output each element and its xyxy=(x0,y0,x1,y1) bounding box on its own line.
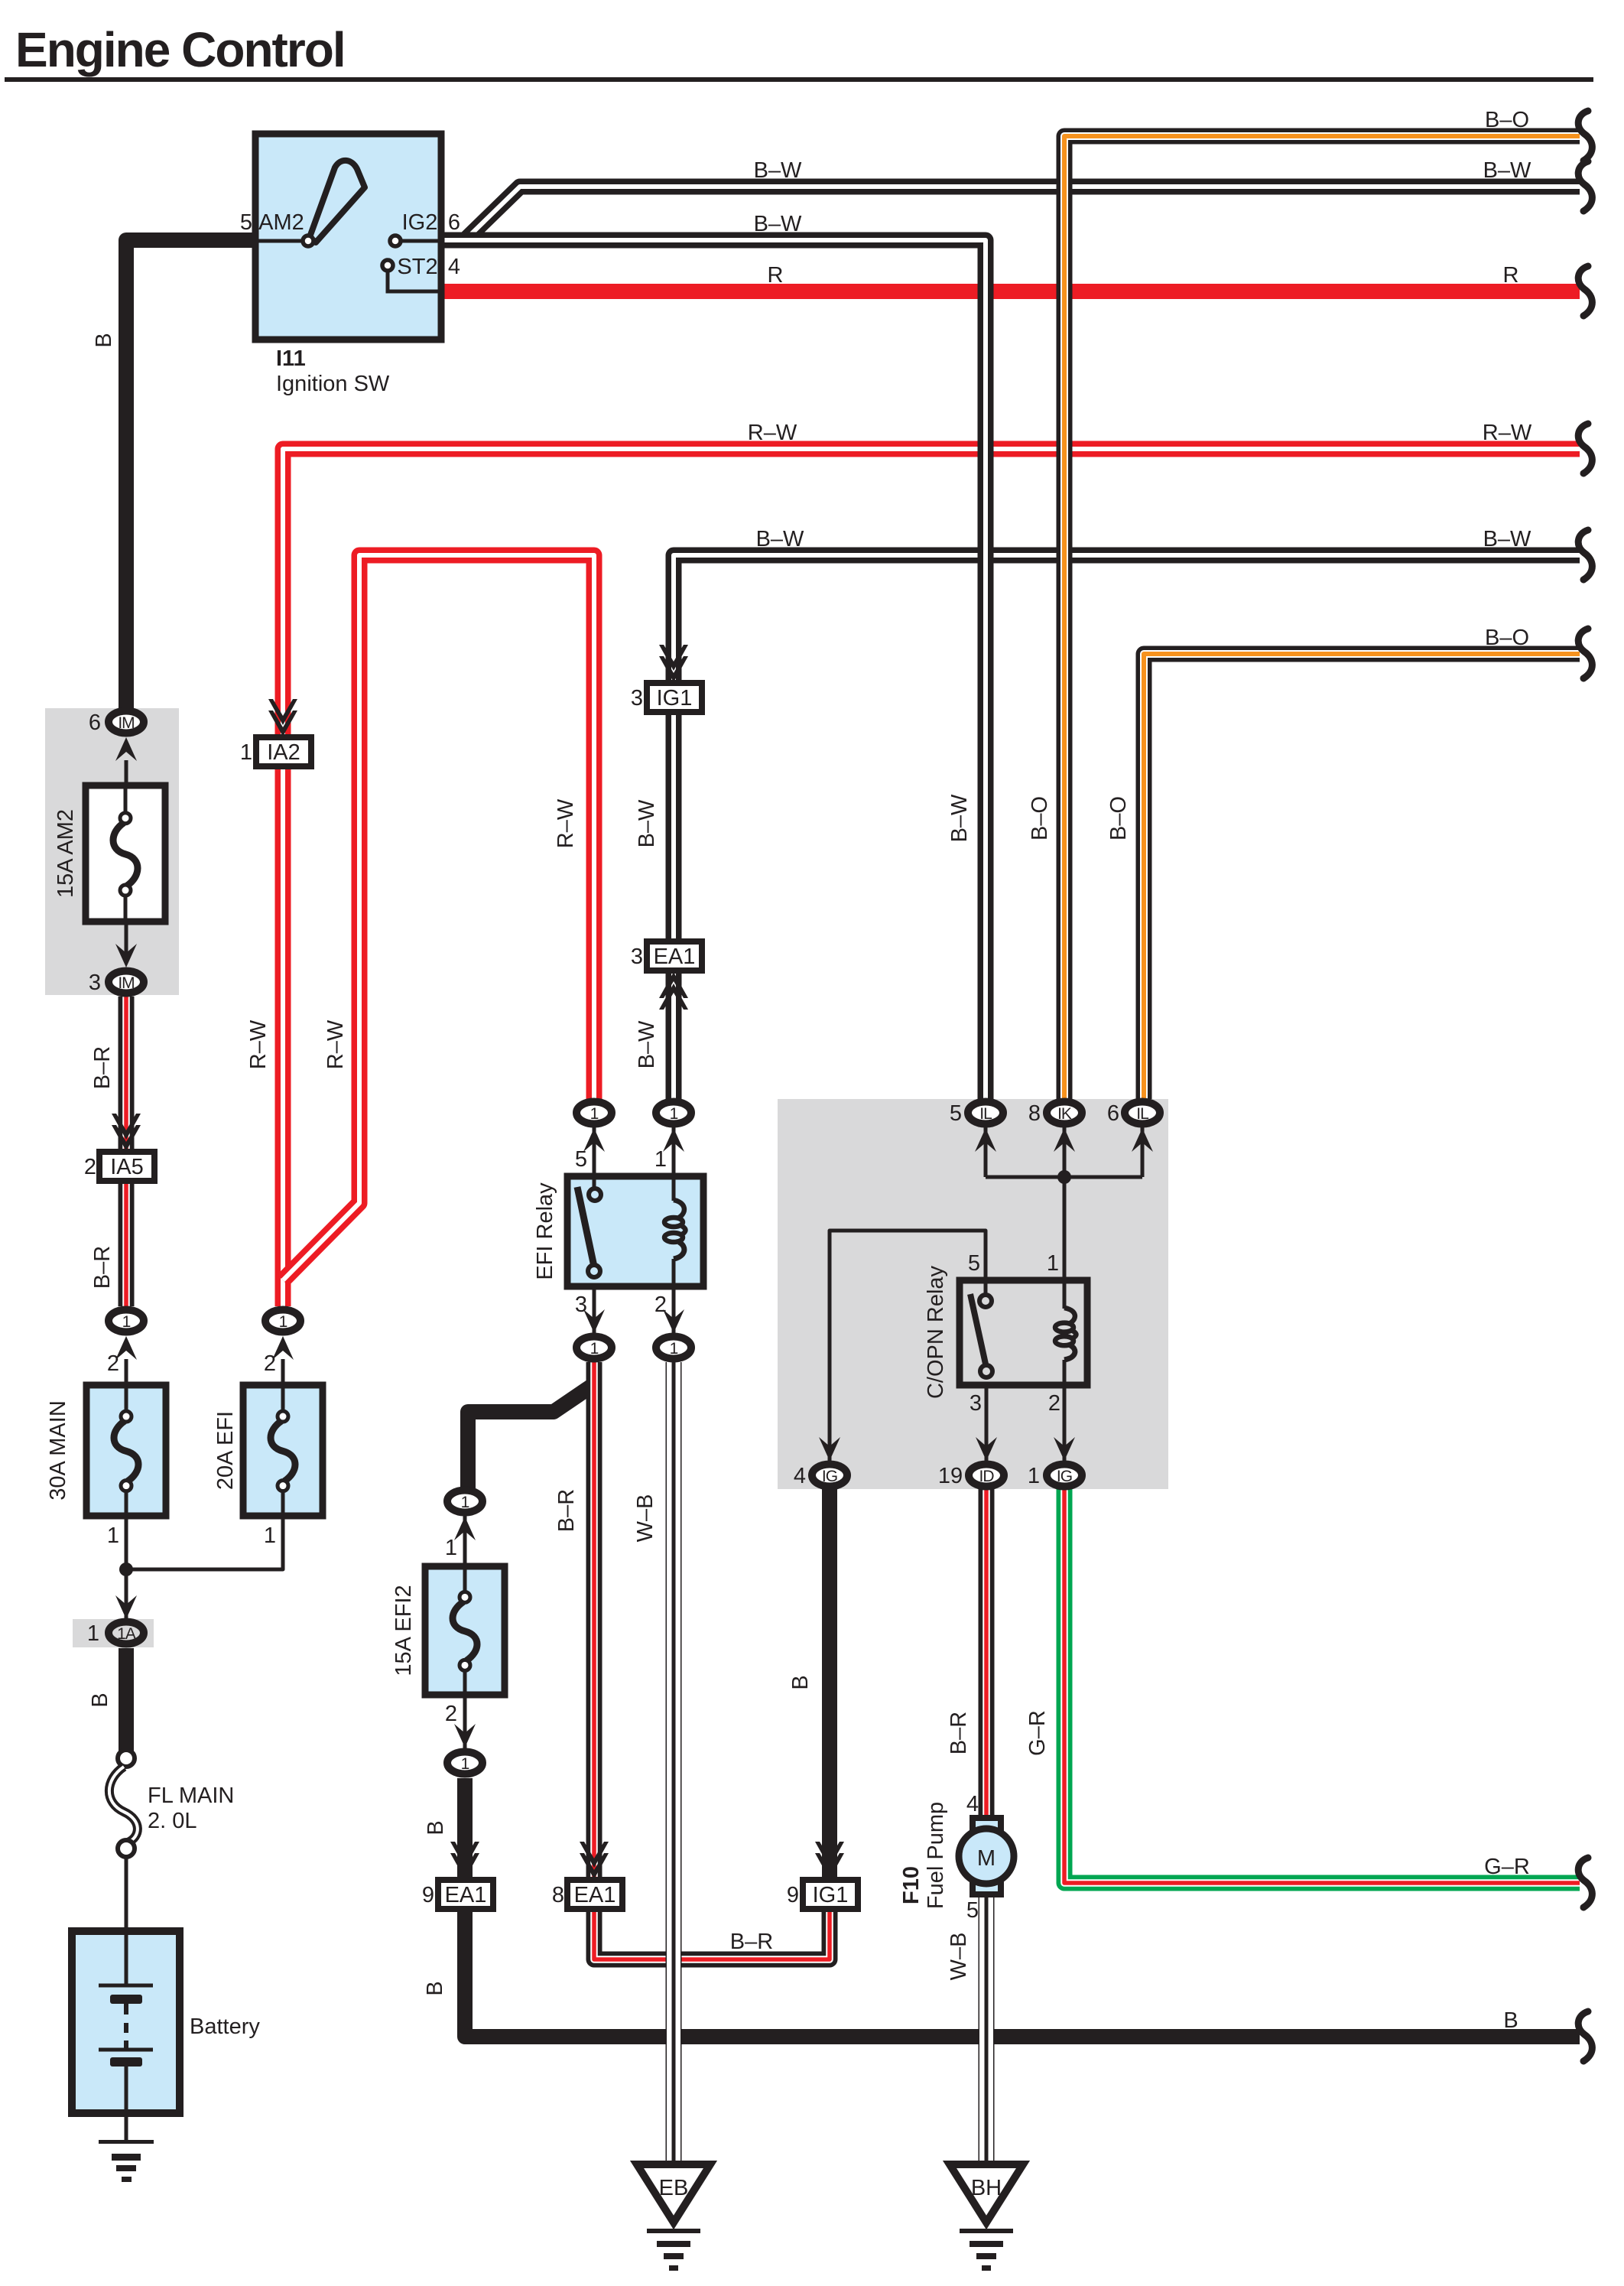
chevron into 3 IG1 xyxy=(659,645,688,682)
svg-text:2. 0L: 2. 0L xyxy=(148,1809,197,1833)
connector 9 EA1 xyxy=(422,1880,493,1909)
svg-text:1: 1 xyxy=(461,1494,469,1511)
svg-text:R–W: R–W xyxy=(246,1019,271,1069)
title underline xyxy=(5,77,1593,82)
wire EFI relay pin 2 to connector xyxy=(672,1283,676,1333)
arrow into 1 IG xyxy=(1054,1437,1075,1461)
continuation B bottom xyxy=(1578,2011,1592,2061)
svg-text:3: 3 xyxy=(89,971,101,995)
svg-text:IA2: IA2 xyxy=(267,740,300,765)
svg-text:B–O: B–O xyxy=(1485,626,1529,650)
arrow into connector (EFI relay pin 5) xyxy=(583,1128,605,1152)
connector 6 IM xyxy=(89,711,144,735)
svg-text:IL: IL xyxy=(979,1105,992,1123)
svg-text:1: 1 xyxy=(122,1313,131,1331)
arrow into connector below pin 2 xyxy=(663,1309,684,1333)
svg-text:1: 1 xyxy=(654,1147,667,1172)
battery ground xyxy=(99,2140,154,2182)
connector 2 IA5 xyxy=(84,1152,154,1181)
wire from 20A EFI pin 1 to junction xyxy=(126,1516,283,1569)
svg-text:5: 5 xyxy=(966,1898,979,1923)
svg-text:1: 1 xyxy=(670,1105,678,1123)
svg-text:1: 1 xyxy=(87,1621,99,1646)
wire B-W from right edge to 3 IG1 xyxy=(674,555,1580,684)
wire from connector to 15A EFI2 pin 1 xyxy=(463,1516,467,1568)
svg-text:R–W: R–W xyxy=(554,798,578,848)
svg-text:B–W: B–W xyxy=(1483,158,1531,183)
wire from 15A EFI2 pin 2 to connector xyxy=(463,1695,467,1749)
svg-text:2: 2 xyxy=(445,1702,457,1726)
svg-text:EA1: EA1 xyxy=(445,1883,487,1907)
wire R-W upper from right edge to IA2 and 20A EFI fuse xyxy=(283,449,1580,737)
wire from 6 IL down to junction bus xyxy=(1141,1127,1145,1177)
arrow into 6 IM xyxy=(115,737,137,761)
wire B-W from 3 EA1 to EFI relay connector xyxy=(666,971,682,1099)
svg-text:1: 1 xyxy=(1028,1464,1040,1488)
svg-text:B: B xyxy=(88,1693,112,1707)
ignition switch contact AM2 xyxy=(303,236,313,246)
continuation B-W lower xyxy=(1578,530,1592,580)
junction node on relay bus xyxy=(1057,1170,1071,1184)
wire 6 IM to 15A AM2 fuse xyxy=(125,760,128,789)
arrow into 4 IG xyxy=(819,1437,840,1461)
wire R-W from IA2 down to 20A EFI connector xyxy=(275,766,291,1306)
wire B (thick) from connector to 9 EA1 xyxy=(457,1778,473,1881)
svg-text:W–B: W–B xyxy=(947,1933,971,1981)
svg-text:15A AM2: 15A AM2 xyxy=(54,809,78,898)
fuel pump F10 motor xyxy=(959,1792,1014,1923)
svg-text:1: 1 xyxy=(461,1755,469,1773)
wire B-O from right edge down to 8 IK xyxy=(1064,136,1580,1099)
connector 5 IL xyxy=(950,1101,1003,1126)
svg-text:IL: IL xyxy=(1136,1105,1148,1123)
svg-text:B–W: B–W xyxy=(756,527,804,551)
wire B-W upper from IG2 pin 6 to right edge xyxy=(441,187,1580,240)
svg-text:IG2: IG2 xyxy=(402,210,438,235)
svg-text:1: 1 xyxy=(590,1105,599,1123)
svg-text:5: 5 xyxy=(575,1147,587,1172)
arrow into 19 ID xyxy=(976,1437,997,1461)
EFI relay switch xyxy=(577,1187,601,1277)
svg-text:3: 3 xyxy=(631,686,643,711)
battery xyxy=(72,1931,180,2113)
svg-text:9: 9 xyxy=(422,1883,434,1907)
svg-text:EA1: EA1 xyxy=(654,945,696,969)
svg-text:IG: IG xyxy=(822,1468,837,1485)
svg-text:1: 1 xyxy=(107,1523,119,1548)
connector 3 IG1 xyxy=(631,683,702,712)
svg-text:AM2: AM2 xyxy=(258,210,304,235)
ground EB xyxy=(637,2164,710,2223)
svg-text:C/OPN Relay: C/OPN Relay xyxy=(924,1265,948,1399)
wire from 30A MAIN pin 1 to junction xyxy=(125,1516,128,1621)
svg-text:IM: IM xyxy=(118,974,134,992)
connector 1 below 15A EFI2 xyxy=(447,1752,482,1774)
highlight panel behind 1A connector xyxy=(73,1619,154,1647)
arrow into 3 IM xyxy=(115,944,137,967)
ground symbol BH xyxy=(960,2229,1013,2271)
svg-text:I11: I11 xyxy=(276,346,306,371)
svg-text:4: 4 xyxy=(448,255,460,279)
connector 1 above EFI relay pin 1 xyxy=(656,1102,691,1124)
wire junction bus to C/OPN relay pin 1 xyxy=(986,1127,1142,1280)
svg-text:1: 1 xyxy=(279,1313,287,1331)
svg-text:R–W: R–W xyxy=(1483,421,1532,445)
svg-text:B–O: B–O xyxy=(1485,108,1529,132)
svg-text:IG1: IG1 xyxy=(657,686,693,711)
junction node xyxy=(119,1562,133,1576)
wire B-R from 19 ID to fuel pump pin 4 xyxy=(979,1489,995,1818)
C/OPN relay switch xyxy=(970,1294,992,1377)
svg-text:1: 1 xyxy=(1047,1251,1059,1276)
arrow into connector below pin 3 xyxy=(583,1309,605,1333)
wire B-W from IG2 pin 6 down to 5 IL xyxy=(441,240,986,1099)
wire B-R from 3 IM to 2 IA5 xyxy=(119,997,135,1153)
svg-text:IG1: IG1 xyxy=(813,1883,849,1907)
svg-text:9: 9 xyxy=(787,1883,799,1907)
ground BH xyxy=(950,2164,1023,2223)
svg-text:B–R: B–R xyxy=(90,1046,115,1089)
svg-text:4: 4 xyxy=(966,1792,979,1816)
svg-text:B–R: B–R xyxy=(730,1930,773,1954)
svg-text:EFI Relay: EFI Relay xyxy=(533,1182,557,1280)
svg-text:B–R: B–R xyxy=(947,1712,971,1754)
wire B (thick) from 9 EA1 to right edge xyxy=(465,1908,1580,2037)
svg-text:R: R xyxy=(768,263,784,288)
fuse 15A EFI2 xyxy=(391,1566,505,1695)
svg-text:IA5: IA5 xyxy=(110,1155,144,1179)
EFI relay coil xyxy=(664,1179,686,1283)
svg-text:B–W: B–W xyxy=(635,799,659,847)
EFI relay box xyxy=(567,1176,703,1286)
svg-text:B: B xyxy=(424,1820,448,1835)
wire B (thick) from AM2 pin 5 down to 6 IM xyxy=(126,240,255,708)
continuation B-O xyxy=(1578,111,1592,161)
wire B-R from 2 IA5 to 30A MAIN connector xyxy=(119,1180,135,1306)
arrow into 6 IL xyxy=(1132,1128,1153,1152)
wire from FL MAIN to battery xyxy=(125,1855,128,1935)
ignition switch I11 box xyxy=(255,134,441,340)
arrow into 8 IK xyxy=(1054,1128,1075,1152)
arrow into connector (EFI relay pin 1) xyxy=(663,1128,684,1152)
svg-text:B–O: B–O xyxy=(1106,796,1131,841)
svg-text:R–W: R–W xyxy=(323,1019,348,1069)
svg-text:ID: ID xyxy=(979,1468,995,1485)
svg-text:G–R: G–R xyxy=(1025,1710,1050,1756)
svg-text:6: 6 xyxy=(448,210,460,235)
svg-text:Ignition SW: Ignition SW xyxy=(276,372,390,396)
chevron into 9 IG1 xyxy=(815,1842,844,1879)
svg-text:Fuel Pump: Fuel Pump xyxy=(924,1802,948,1909)
connector 1 above 15A EFI2 xyxy=(447,1491,482,1513)
wire from C/OPN relay pin 3 to 19 ID xyxy=(985,1385,989,1461)
svg-text:6: 6 xyxy=(1107,1101,1119,1126)
svg-text:IM: IM xyxy=(118,714,134,732)
svg-text:M: M xyxy=(977,1846,996,1871)
wire from 5 IL down to junction bus xyxy=(984,1127,988,1177)
svg-text:EB: EB xyxy=(659,2176,689,2200)
wire 30A MAIN pin 2 xyxy=(125,1359,128,1388)
arrow into 5 IL xyxy=(975,1128,996,1152)
svg-text:B: B xyxy=(1503,2008,1518,2033)
wire EFI relay pin 3 to connector xyxy=(593,1283,596,1333)
svg-text:R: R xyxy=(1503,263,1519,288)
connector 1 above 20A EFI xyxy=(265,1310,300,1332)
connector 3 EA1 xyxy=(631,941,702,971)
svg-text:B–R: B–R xyxy=(554,1489,579,1532)
connector 3 IM xyxy=(89,971,144,995)
svg-text:1: 1 xyxy=(670,1340,678,1358)
arrow into connector below EFI2 xyxy=(454,1724,476,1748)
svg-text:B–W: B–W xyxy=(754,212,802,236)
svg-text:G–R: G–R xyxy=(1484,1855,1530,1879)
connector 1 above EFI relay pin 5 xyxy=(577,1102,612,1124)
arrow into connector 1 (20A EFI) xyxy=(272,1336,294,1360)
svg-text:B: B xyxy=(788,1675,813,1689)
arrow into 1A xyxy=(115,1595,137,1619)
connector 1 below EFI relay pin 3 xyxy=(577,1337,612,1359)
svg-text:B–W: B–W xyxy=(1483,527,1531,551)
wire from C/OPN relay pin 2 to 1 IG xyxy=(1063,1385,1067,1461)
connector 9 IG1 xyxy=(787,1880,858,1909)
svg-text:15A EFI2: 15A EFI2 xyxy=(391,1585,416,1676)
wire 20A EFI pin 2 xyxy=(281,1359,285,1388)
fuse 15A AM2 xyxy=(54,785,165,922)
fuse 30A MAIN xyxy=(46,1385,166,1516)
svg-text:5: 5 xyxy=(950,1101,962,1126)
ground symbol EB xyxy=(647,2229,700,2271)
svg-text:B: B xyxy=(423,1981,447,1995)
svg-text:5: 5 xyxy=(240,210,252,235)
svg-text:EA1: EA1 xyxy=(574,1883,616,1907)
svg-text:3: 3 xyxy=(631,945,643,969)
connector 1 below EFI relay pin 2 xyxy=(656,1337,691,1359)
wire R (thick red) from ST2 pin 4 to right edge xyxy=(441,284,1580,299)
svg-text:B–W: B–W xyxy=(754,158,802,183)
svg-text:IK: IK xyxy=(1057,1105,1072,1123)
connector 8 EA1 xyxy=(552,1880,622,1909)
svg-text:BH: BH xyxy=(971,2176,1002,2200)
svg-text:4: 4 xyxy=(794,1464,806,1488)
svg-text:19: 19 xyxy=(938,1464,963,1488)
svg-text:1: 1 xyxy=(445,1536,457,1560)
connector 1 IG xyxy=(1028,1464,1082,1488)
svg-text:2: 2 xyxy=(264,1351,276,1376)
continuation B-O lower xyxy=(1578,629,1592,678)
connector 4 IG xyxy=(794,1464,847,1488)
svg-text:1: 1 xyxy=(240,740,252,765)
connector 8 IK xyxy=(1028,1101,1082,1126)
fuse 20A EFI xyxy=(213,1385,323,1516)
fusible link FL MAIN xyxy=(109,1750,138,1857)
relay block panel (C/OPN Relay) xyxy=(778,1099,1168,1489)
wire B (thick) from 1A to FL MAIN xyxy=(119,1648,134,1753)
svg-text:FL MAIN: FL MAIN xyxy=(148,1784,234,1808)
connector 1A xyxy=(87,1621,144,1646)
connector 1 IA2 xyxy=(240,737,311,766)
continuation R xyxy=(1578,266,1592,316)
svg-text:20A EFI: 20A EFI xyxy=(213,1411,238,1490)
svg-text:Engine Control: Engine Control xyxy=(15,22,345,77)
wire B-W from 3 IG1 to 3 EA1 xyxy=(666,711,682,941)
wire B (thick) from 4 IG to 9 IG1 xyxy=(822,1489,837,1881)
wire EFI relay pin 1 to connector xyxy=(672,1127,676,1179)
svg-text:1: 1 xyxy=(590,1340,599,1358)
svg-text:ST2: ST2 xyxy=(397,255,437,279)
wire from battery to ground xyxy=(125,2109,128,2141)
svg-text:5: 5 xyxy=(968,1251,980,1276)
svg-text:B–W: B–W xyxy=(635,1020,659,1068)
C/OPN relay box xyxy=(960,1280,1087,1385)
connector 6 IL xyxy=(1107,1101,1160,1126)
svg-text:F10: F10 xyxy=(899,1866,924,1904)
svg-text:1: 1 xyxy=(264,1523,276,1548)
ignition switch contact IG2 xyxy=(390,236,401,246)
svg-text:R–W: R–W xyxy=(748,421,797,445)
svg-text:2: 2 xyxy=(1048,1391,1060,1416)
svg-text:2: 2 xyxy=(84,1155,96,1179)
continuation G-R xyxy=(1578,1858,1592,1907)
svg-text:Battery: Battery xyxy=(190,2014,260,2039)
wire G-R from 1 IG to right edge xyxy=(1064,1489,1580,1883)
svg-text:30A MAIN: 30A MAIN xyxy=(46,1400,70,1501)
svg-text:2: 2 xyxy=(107,1351,119,1376)
svg-text:B–R: B–R xyxy=(90,1246,115,1289)
ignition switch contact ST2 xyxy=(382,260,393,271)
chevron into 1 IA2 xyxy=(268,699,297,737)
svg-text:B–O: B–O xyxy=(1028,796,1052,841)
chevron into 2 IA5 xyxy=(112,1114,141,1151)
svg-text:6: 6 xyxy=(89,711,101,735)
svg-text:W–B: W–B xyxy=(633,1494,658,1543)
wire EFI relay pin 5 to connector xyxy=(593,1127,596,1179)
svg-text:B: B xyxy=(92,333,116,347)
chevron out of 3 EA1 xyxy=(659,972,688,1010)
svg-text:B–W: B–W xyxy=(947,794,972,842)
svg-text:1A: 1A xyxy=(117,1625,136,1643)
wire 15A AM2 to 3 IM xyxy=(125,922,128,956)
svg-text:IG: IG xyxy=(1057,1468,1072,1485)
svg-text:8: 8 xyxy=(552,1883,564,1907)
wire W-B from EFI relay pin 2 to EB ground xyxy=(666,1362,682,2164)
chevron into 9 EA1 xyxy=(450,1842,479,1879)
wire R-W loop from EFI relay pin 5 riser xyxy=(283,555,594,1280)
wire B-R from 8 EA1 to 9 IG1 xyxy=(594,1908,830,1959)
connector 1 above 30A MAIN xyxy=(109,1310,144,1332)
arrow into connector 1 (30A MAIN) xyxy=(115,1336,137,1360)
C/OPN relay coil xyxy=(1055,1280,1077,1385)
wire B (thick) branch from EFI relay feed to 15A EFI2 xyxy=(468,1386,592,1488)
wire W-B from fuel pump pin 5 to BH ground xyxy=(979,1894,995,2164)
connector 19 ID xyxy=(938,1464,1004,1488)
arrow into connector above EFI2 xyxy=(454,1517,476,1540)
junction block panel (15A AM2) xyxy=(45,708,179,995)
svg-text:3: 3 xyxy=(970,1391,982,1416)
wire B-R from EFI relay pin 3 to 8 EA1 xyxy=(586,1362,603,1881)
wire B-O from right edge down to 6 IL xyxy=(1144,654,1580,1099)
ignition switch lever xyxy=(310,161,365,242)
continuation R-W xyxy=(1578,424,1592,473)
chevron into 8 EA1 xyxy=(580,1842,609,1879)
svg-text:8: 8 xyxy=(1028,1101,1041,1126)
continuation B-W upper xyxy=(1578,161,1592,211)
wire from C/OPN relay pin 5 to 4 IG xyxy=(830,1231,986,1461)
